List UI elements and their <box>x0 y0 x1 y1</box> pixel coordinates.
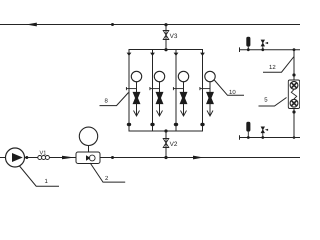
wire bottom main line <box>0 157 300 159</box>
wire right lower header <box>240 137 301 139</box>
valve V2 <box>163 139 169 148</box>
wire branch line 3 <box>175 50 177 132</box>
gauge assembly branch 2 <box>150 71 165 116</box>
valve with arrow upper <box>261 40 264 46</box>
wire filter riser <box>293 50 295 80</box>
node junction dot top line <box>111 23 114 26</box>
svg-text:1: 1 <box>45 178 49 185</box>
node V3 bottom dot <box>164 48 167 51</box>
flow arrow right on bottom line <box>193 156 204 160</box>
flow arrow right before meter <box>62 156 75 160</box>
wire top main line <box>0 24 300 26</box>
sensor pill upper <box>246 37 250 47</box>
node V2 top dot <box>164 129 167 132</box>
node V2 bottom dot <box>164 156 167 159</box>
label 2 leader <box>90 163 125 182</box>
svg-text:2: 2 <box>105 175 109 182</box>
wire filter down pipe <box>293 109 295 138</box>
gauge assembly branch 3 <box>173 71 189 116</box>
wire branch line 2 <box>152 50 154 132</box>
svg-text:V2: V2 <box>170 141 178 148</box>
gauge on meter <box>88 145 90 152</box>
cap tick upper header <box>239 47 241 52</box>
node tee dot lower header <box>293 136 296 139</box>
node tee dot upper header <box>293 48 296 51</box>
sensor pill lower <box>246 122 250 132</box>
filter 5 <box>288 80 299 109</box>
svg-text:V1: V1 <box>40 151 47 157</box>
manifold header rectangle <box>129 50 203 132</box>
label 5 leader <box>259 98 287 107</box>
wire V2 drop <box>165 131 167 158</box>
svg-text:V3: V3 <box>170 33 178 40</box>
node junction dot bottom line <box>111 156 114 159</box>
valve V3 <box>163 31 169 40</box>
svg-text:5: 5 <box>264 97 268 104</box>
cap tick lower header <box>239 135 241 140</box>
node dot above filter <box>292 73 295 76</box>
node branch bottom dots <box>127 123 205 126</box>
label 12 leader <box>263 57 294 73</box>
label 10 leader <box>214 80 244 95</box>
svg-text:10: 10 <box>229 89 236 96</box>
gauge assembly branch 1 <box>126 71 142 116</box>
wire V3 riser <box>165 25 167 50</box>
label 8 leader <box>100 93 129 106</box>
flow arrow left on top line <box>26 23 37 27</box>
node V3 top junction dot <box>164 23 167 26</box>
node branch top dots <box>127 53 205 56</box>
wire right upper header <box>240 49 301 51</box>
svg-text:12: 12 <box>269 64 276 71</box>
coupling V1 <box>38 156 50 160</box>
flow meter 2 <box>76 152 100 164</box>
gauge assembly branch 4 <box>200 71 216 116</box>
node dot below filter <box>292 110 295 113</box>
label 1 leader <box>20 166 60 186</box>
svg-text:8: 8 <box>105 98 109 105</box>
pump 1 <box>6 148 29 167</box>
valve with arrow lower <box>261 127 264 133</box>
